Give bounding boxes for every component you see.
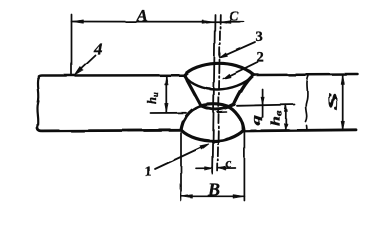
svg-text:q: q (249, 115, 263, 125)
svg-text:hв: hв (268, 110, 284, 126)
svg-text:A: A (136, 6, 148, 25)
svg-text:C: C (229, 10, 239, 25)
svg-text:c: c (226, 155, 232, 170)
svg-text:1: 1 (145, 164, 153, 180)
svg-text:B: B (207, 179, 220, 199)
svg-text:4: 4 (93, 40, 103, 59)
svg-text:S: S (325, 92, 340, 111)
svg-text:2: 2 (257, 50, 264, 66)
svg-text:hи: hи (145, 92, 160, 104)
svg-text:3: 3 (256, 29, 263, 45)
